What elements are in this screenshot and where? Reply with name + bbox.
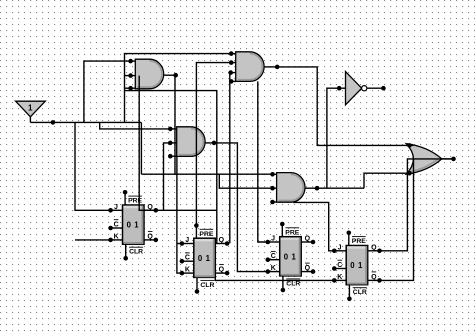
not-gate U1 <box>346 72 362 105</box>
wire A4 out east <box>317 187 364 189</box>
wire A1 in2 drop to FF1 Q <box>139 76 156 211</box>
pin A3 in2 <box>168 141 173 146</box>
svg-text:Q: Q <box>305 265 311 272</box>
pin FF2 Qbar <box>215 272 227 274</box>
pin FF4 K <box>334 279 346 281</box>
wire A2 bottom drop to FF3 J <box>258 81 268 242</box>
pin FF2 Q <box>215 243 227 245</box>
pin FF3 Qbar <box>301 271 313 273</box>
svg-text:Q: Q <box>371 244 377 251</box>
pin FF2 C <box>182 260 194 262</box>
pin A2 in4 <box>229 79 234 84</box>
wire under A1 to right <box>125 91 217 244</box>
wire FF2 J feed <box>177 243 182 245</box>
svg-text:J: J <box>114 204 118 211</box>
wire branch up to A1 in1 <box>84 61 131 122</box>
svg-text:0 1: 0 1 <box>350 261 363 270</box>
wire OR out to FF4 Q <box>380 159 454 251</box>
wire FF1 Q east <box>156 209 217 211</box>
pin A1 in2 <box>128 73 133 78</box>
wire A2 in2 from jog <box>196 63 231 226</box>
pin NOT out <box>367 87 384 89</box>
pin FF1 J <box>111 209 123 211</box>
pin A2 in3 <box>228 70 233 75</box>
wire const net horizontal <box>30 121 141 123</box>
wire const drop to bus <box>140 122 142 174</box>
wire FF1 Q to A3 in2 <box>164 143 171 210</box>
svg-text:CLR: CLR <box>286 280 300 287</box>
pin NOT in <box>337 86 342 91</box>
pin OR out <box>442 158 454 160</box>
svg-text:Q: Q <box>305 236 311 243</box>
pin A3 in3 <box>168 154 173 159</box>
svg-text:Q: Q <box>219 267 225 274</box>
pin OR in1 <box>407 143 412 148</box>
svg-text:Q: Q <box>147 233 153 240</box>
pin A4 out <box>305 187 317 189</box>
svg-text:0 1: 0 1 <box>284 252 297 261</box>
pin FF4 PRE <box>348 233 350 246</box>
wire A1 out down to bus <box>174 75 176 174</box>
pin FF4 CLR <box>348 285 350 299</box>
svg-text:K: K <box>337 274 342 281</box>
svg-text:K: K <box>114 233 119 240</box>
pin FF1 C <box>111 227 123 229</box>
wire const output <box>29 116 31 122</box>
pin FF4 J <box>334 250 346 252</box>
pin FF2 PRE <box>195 226 197 239</box>
wire stub to A1 in3 <box>125 87 131 89</box>
pin A4 in3 <box>270 200 275 205</box>
svg-text:J: J <box>271 236 275 243</box>
flip-flop FF3 box <box>280 237 302 276</box>
svg-text:PRE: PRE <box>285 229 299 236</box>
svg-text:Q: Q <box>219 237 225 244</box>
pin A1 out <box>163 74 175 76</box>
and-gate A4 <box>277 173 305 203</box>
wire FF4 Qbar up to OR out line <box>380 159 414 281</box>
svg-text:CLR: CLR <box>129 249 143 256</box>
pin A2 in2 <box>229 60 234 65</box>
pin FF1 CLR <box>125 244 127 258</box>
svg-text:J: J <box>185 237 189 244</box>
svg-text:Q: Q <box>371 274 377 281</box>
or-gate O1 <box>406 144 442 175</box>
pin FF1 Qbar <box>144 239 156 241</box>
pin FF1 PRE <box>124 192 126 205</box>
and-gate A3 <box>177 127 205 157</box>
pin A3 in1 <box>168 127 173 132</box>
svg-text:PRE: PRE <box>352 238 366 245</box>
pin FF2 K <box>182 272 194 274</box>
and-gate A2 <box>236 52 264 82</box>
pin FF2 CLR <box>196 277 198 291</box>
svg-text:K: K <box>271 265 276 272</box>
pin FF4 Q <box>368 250 380 252</box>
wire A3 out to FF3 K <box>214 143 268 272</box>
pin FF3 J <box>268 241 280 243</box>
svg-text:1: 1 <box>28 104 33 113</box>
pin A2 out <box>264 66 278 68</box>
wire A4 out jog to OR in2 <box>364 173 409 188</box>
wire stub to A1 in2 <box>125 75 131 77</box>
wire A4 bottom to FF4 J <box>293 202 334 250</box>
pin FF4 C <box>334 268 346 270</box>
flip-flop FF4 box <box>346 246 368 285</box>
wire A4 out up to NOT in <box>327 88 339 188</box>
constant 1 source V1 <box>16 101 46 117</box>
and-gate A1 <box>135 59 163 89</box>
pin A1 in3 <box>128 86 133 91</box>
pin FF3 Q <box>301 241 313 243</box>
pin FF4 Qbar <box>368 279 380 281</box>
svg-text:C: C <box>271 253 276 260</box>
svg-text:C: C <box>185 255 190 262</box>
wire bus A1in2-A4 <box>141 173 272 175</box>
svg-text:CLR: CLR <box>353 289 367 296</box>
wire A1 in2 drop overlay inside FF1 <box>139 205 156 211</box>
pin FF3 PRE <box>281 224 283 237</box>
svg-text:0 1: 0 1 <box>198 254 211 263</box>
svg-text:C: C <box>337 262 342 269</box>
pin OR in2 <box>407 171 412 176</box>
node const junction <box>51 120 56 125</box>
svg-text:CLR: CLR <box>200 282 214 289</box>
svg-text:K: K <box>185 267 190 274</box>
wire A2 out to OR in1 <box>277 67 409 145</box>
wire branch down to FF1 J <box>75 122 111 210</box>
svg-text:C: C <box>114 222 119 229</box>
pin A2 in1 <box>229 51 234 56</box>
pin FF3 CLR <box>282 276 284 290</box>
pin FF2 J <box>182 243 194 245</box>
svg-text:PRE: PRE <box>128 198 142 205</box>
wire A2 in1 feed vertical <box>125 54 232 123</box>
pin FF1 Q <box>144 209 156 211</box>
pin FF1 K <box>111 239 123 241</box>
wire branch to A3 in1 <box>100 122 171 128</box>
svg-text:PRE: PRE <box>199 231 213 238</box>
flip-flop FF1 box <box>123 205 145 244</box>
wire FF2 corner to FF4 K <box>215 277 334 280</box>
pin FF3 K <box>268 271 280 273</box>
svg-text:J: J <box>338 244 342 251</box>
flip-flop FF2 box <box>194 238 216 277</box>
wire FF1 K feed <box>75 239 111 241</box>
pin FF3 C <box>268 259 280 261</box>
pin A3 out <box>205 142 214 144</box>
pin A4 in1 <box>270 172 275 177</box>
wire A3 bottom drop to FF2 JK <box>177 156 182 273</box>
wire A4 in2 jog from bus <box>219 174 272 188</box>
pin A1 in1 <box>128 59 133 64</box>
wire A2 in3 down to FF2 Q <box>229 73 231 244</box>
pin A4 in2 <box>270 186 275 191</box>
svg-text:0 1: 0 1 <box>127 221 140 230</box>
